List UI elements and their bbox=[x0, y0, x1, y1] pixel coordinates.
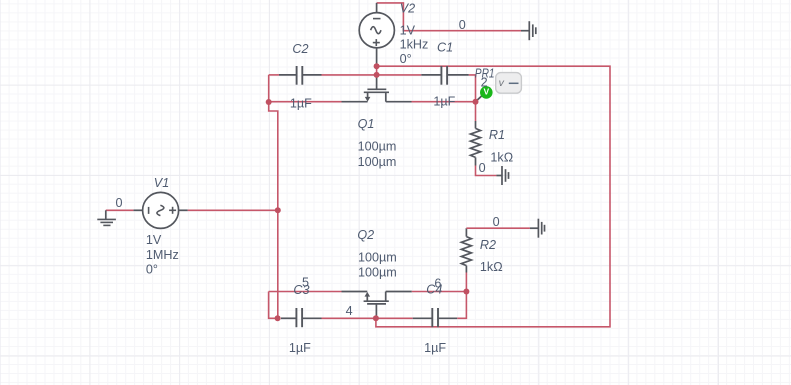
svg-text:100µm: 100µm bbox=[358, 140, 397, 154]
svg-text:4: 4 bbox=[346, 304, 353, 318]
voltage source V1 bbox=[133, 192, 187, 228]
wire C4 right up to R2 node bbox=[457, 292, 466, 319]
wire node 2 to R1 bbox=[475, 102, 477, 121]
svg-text:1µF: 1µF bbox=[433, 94, 455, 108]
transistor Q2 bbox=[342, 292, 412, 318]
wire V1 left to ground bbox=[106, 209, 134, 211]
svg-text:C1: C1 bbox=[437, 41, 453, 55]
wire V2 top to net 0 bbox=[377, 3, 521, 31]
resistor R1 bbox=[471, 121, 481, 166]
svg-text:R1: R1 bbox=[489, 128, 505, 142]
capacitor C3 bbox=[281, 308, 322, 327]
wire stub to ground top bbox=[521, 30, 529, 32]
wire node 4 to C4 bbox=[376, 317, 413, 319]
svg-text:1kΩ: 1kΩ bbox=[480, 260, 503, 274]
junction dots bbox=[266, 63, 479, 321]
svg-text:v: v bbox=[499, 77, 505, 89]
svg-text:C2: C2 bbox=[292, 42, 308, 56]
svg-text:Q1: Q1 bbox=[358, 117, 375, 131]
wire V2 bottom between dots bbox=[376, 65, 378, 75]
svg-text:0°: 0° bbox=[146, 262, 158, 276]
svg-text:1kΩ: 1kΩ bbox=[490, 151, 513, 165]
ground V1 (net 0) bbox=[97, 210, 116, 225]
wire C2 line left bbox=[269, 74, 279, 76]
voltage source V2 bbox=[359, 3, 394, 65]
svg-text:1MHz: 1MHz bbox=[146, 248, 179, 262]
svg-text:1µF: 1µF bbox=[289, 341, 311, 355]
resistor R2 bbox=[461, 228, 471, 272]
wire Q2 source corner down bbox=[269, 292, 278, 319]
wire C2 to C1 bbox=[322, 74, 422, 76]
svg-text:1µF: 1µF bbox=[424, 341, 446, 355]
transistor Q1 bbox=[342, 76, 412, 102]
wire C3 to node 4 bbox=[322, 317, 376, 319]
ground top right (net 0) bbox=[529, 21, 536, 40]
wire C2 left vertical with jog down to V1 line bbox=[269, 75, 278, 318]
svg-text:1µF: 1µF bbox=[290, 96, 312, 110]
wire R1 bottom to ground bbox=[476, 166, 497, 176]
svg-text:5: 5 bbox=[302, 276, 309, 290]
probe PR1 pointer bbox=[477, 95, 482, 100]
wire R2 top to ground bbox=[466, 227, 530, 229]
wire Q1 drain to node 2 bbox=[412, 101, 476, 103]
svg-text:100µm: 100µm bbox=[358, 250, 397, 264]
svg-text:100µm: 100µm bbox=[358, 155, 397, 169]
svg-text:6: 6 bbox=[434, 276, 441, 290]
ground R2 (net 0) bbox=[530, 219, 545, 238]
probe PR1 circle bbox=[480, 86, 493, 99]
capacitor C1 bbox=[421, 66, 469, 85]
wire Q2 drain to R2 node bbox=[412, 291, 467, 293]
svg-text:0: 0 bbox=[459, 18, 466, 32]
wire Q1 source bbox=[269, 101, 342, 103]
svg-text:0: 0 bbox=[493, 215, 500, 229]
svg-text:1V: 1V bbox=[400, 23, 416, 37]
wire Q2 source line bbox=[269, 291, 342, 293]
svg-text:100µm: 100µm bbox=[358, 265, 397, 279]
ground R1 (net 0) bbox=[496, 166, 508, 185]
probe PR1 badge bbox=[496, 73, 522, 94]
svg-text:0°: 0° bbox=[400, 52, 412, 66]
svg-text:V1: V1 bbox=[154, 176, 169, 190]
svg-text:Q2: Q2 bbox=[357, 228, 374, 242]
wire V1 right to vertical bbox=[188, 209, 278, 211]
svg-text:V2: V2 bbox=[400, 2, 415, 16]
svg-text:0: 0 bbox=[116, 196, 123, 210]
svg-text:1V: 1V bbox=[146, 233, 162, 247]
svg-text:2: 2 bbox=[481, 75, 488, 89]
wire C1 right to node 2 bbox=[469, 75, 476, 102]
wire feedback loop right side bbox=[376, 66, 610, 327]
svg-text:0: 0 bbox=[479, 161, 486, 175]
svg-text:R2: R2 bbox=[480, 238, 496, 252]
capacitor C4 bbox=[413, 308, 458, 327]
svg-text:1kHz: 1kHz bbox=[400, 38, 429, 52]
wire R2 bottom bbox=[465, 273, 467, 292]
capacitor C2 bbox=[279, 66, 322, 85]
